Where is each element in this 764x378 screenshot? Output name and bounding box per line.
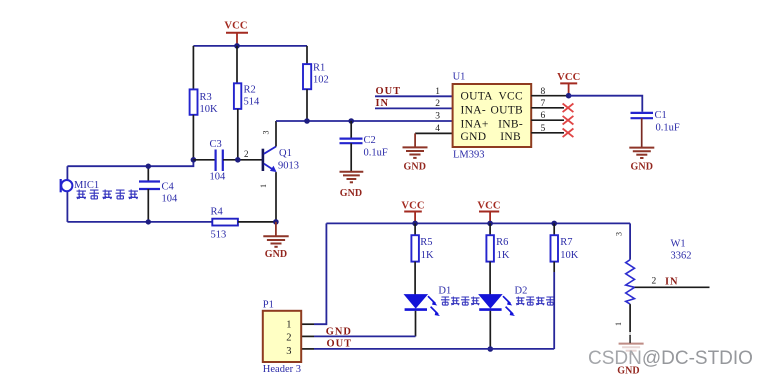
node R5 top — [412, 221, 418, 227]
svg-text:OUTA: OUTA — [461, 90, 494, 102]
potentiometer W1 3362 — [614, 223, 710, 336]
svg-text:9013: 9013 — [278, 161, 299, 172]
pin 7 wire — [531, 107, 564, 109]
svg-text:0.1uF: 0.1uF — [656, 123, 680, 134]
wire net OUT to U1 pin1 — [375, 95, 453, 97]
svg-text:C4: C4 — [162, 182, 175, 193]
svg-text:INB-: INB- — [498, 118, 523, 130]
connector P1 Header 3 — [263, 299, 301, 375]
resistor R3 — [190, 89, 218, 115]
svg-text:1: 1 — [614, 322, 623, 326]
svg-text:IN: IN — [376, 98, 390, 109]
no-connect X pin5 — [563, 129, 574, 138]
svg-text:GND: GND — [265, 249, 288, 260]
wire net OUT (P1 pin3 to D2/R7) — [314, 348, 554, 350]
resistor R6 — [486, 223, 509, 294]
no-connect X pin7 — [563, 104, 574, 113]
svg-text:6: 6 — [541, 111, 546, 121]
svg-text:7: 7 — [541, 99, 546, 109]
svg-text:R5: R5 — [420, 237, 432, 248]
svg-text:LM393: LM393 — [453, 150, 485, 161]
resistor R2 — [234, 83, 260, 109]
svg-text:2: 2 — [244, 149, 249, 159]
wire R4 to emitter node — [238, 221, 276, 223]
capacitor C1 — [631, 110, 680, 147]
wire pin8 to C1 — [569, 96, 643, 112]
svg-text:OUT: OUT — [327, 338, 353, 349]
svg-text:5: 5 — [541, 124, 546, 134]
power symbol VCC (top, net VCC) — [224, 21, 248, 46]
svg-text:GND: GND — [340, 188, 363, 199]
node emitter / R4 / GND — [273, 219, 279, 225]
svg-text:R1: R1 — [313, 63, 325, 74]
node D2/OUT junction — [488, 346, 494, 352]
svg-text:VCC: VCC — [557, 72, 580, 83]
svg-text:GND: GND — [404, 161, 427, 172]
svg-text:INA-: INA- — [461, 104, 486, 116]
svg-text:C2: C2 — [364, 135, 376, 146]
svg-text:10K: 10K — [200, 104, 219, 115]
svg-text:0.1uF: 0.1uF — [364, 148, 388, 159]
microphone MIC1 — [61, 166, 99, 222]
svg-text:OUTB: OUTB — [490, 104, 523, 116]
wire W1 pin1 stem (over blob) — [629, 335, 631, 343]
svg-text:VCC: VCC — [224, 21, 247, 32]
svg-text:2: 2 — [435, 99, 440, 109]
wire R3 bottom pin — [192, 115, 194, 160]
node R2 bottom junction — [235, 157, 241, 163]
power symbol VCC (U1 pin8) — [557, 72, 580, 96]
svg-text:GND: GND — [326, 326, 352, 337]
svg-text:3: 3 — [262, 131, 271, 135]
svg-text:3: 3 — [286, 346, 291, 357]
svg-text:4: 4 — [435, 124, 440, 134]
wire top rail VCC — [193, 45, 307, 47]
svg-text:R3: R3 — [200, 92, 212, 103]
svg-text:1: 1 — [286, 320, 291, 331]
svg-text:C3: C3 — [210, 139, 222, 150]
node VCC junction at R2 top — [234, 43, 240, 49]
node C4 top — [146, 164, 151, 169]
svg-text:1: 1 — [435, 87, 440, 97]
capacitor C4 — [139, 166, 178, 222]
pin 6 wire — [531, 119, 564, 121]
svg-text:C1: C1 — [655, 110, 667, 121]
ground (below C2) — [340, 172, 364, 199]
power symbol VCC (R5) — [401, 200, 424, 223]
svg-text:IN: IN — [665, 276, 679, 287]
svg-text:U1: U1 — [453, 72, 466, 83]
watermark background blob — [545, 332, 763, 371]
wire R1 bottom pin — [306, 89, 308, 121]
svg-text:Header 3: Header 3 — [263, 364, 301, 375]
svg-text:2: 2 — [286, 333, 291, 344]
wire D2 cathode down — [489, 311, 491, 349]
wire mic top rail — [67, 160, 193, 166]
resistor R7 — [551, 223, 579, 349]
svg-text:3: 3 — [615, 232, 624, 236]
ground (below W1) — [619, 344, 644, 354]
wire net IN to U1 pin2 — [375, 107, 453, 109]
svg-text:W1: W1 — [671, 239, 686, 250]
node R1 bottom / collector — [304, 118, 310, 124]
svg-text:VCC: VCC — [401, 200, 424, 211]
svg-text:GND: GND — [461, 131, 487, 143]
capacitor C3 — [210, 139, 227, 183]
label 电源指示 (fake cjk) — [441, 297, 480, 306]
pin 8 wire — [531, 95, 568, 97]
wire R3 top pin — [192, 46, 194, 90]
svg-text:R6: R6 — [496, 237, 508, 248]
ground (below C1) — [629, 148, 654, 173]
svg-text:R2: R2 — [244, 85, 256, 96]
svg-text:INB: INB — [500, 131, 521, 143]
svg-text:D2: D2 — [515, 285, 528, 296]
svg-text:GND: GND — [617, 365, 640, 376]
svg-text:8: 8 — [541, 87, 546, 97]
svg-text:OUT: OUT — [376, 86, 402, 97]
wire to C3 — [193, 159, 215, 161]
svg-text:513: 513 — [211, 230, 227, 241]
ground (below Q1) — [263, 222, 288, 260]
op-amp U1 LM393 — [453, 72, 532, 161]
node R6 top — [487, 221, 493, 227]
wire R1 top pin from rail — [306, 46, 308, 64]
ground (U1 pin4) — [403, 147, 428, 172]
svg-text:INA+: INA+ — [461, 118, 489, 130]
capacitor C2 — [340, 121, 388, 171]
transistor Q1 9013 — [259, 121, 299, 222]
wire C3 to base — [223, 159, 262, 161]
LED D1 — [405, 285, 452, 316]
no-connect X pin6 — [563, 116, 574, 125]
node R7 top — [551, 221, 557, 227]
svg-text:VCC: VCC — [498, 90, 523, 102]
svg-text:GND: GND — [631, 162, 654, 173]
svg-text:10K: 10K — [560, 250, 579, 261]
svg-text:104: 104 — [162, 194, 179, 205]
pin 5 wire — [531, 132, 564, 134]
svg-text:2: 2 — [652, 276, 657, 286]
svg-text:Q1: Q1 — [279, 148, 292, 159]
wire mic bottom rail — [67, 221, 212, 223]
wire P1 pin1 riser — [314, 223, 326, 324]
svg-text:104: 104 — [210, 172, 227, 183]
label 开关指示 (fake cjk) — [516, 297, 555, 306]
svg-text:1K: 1K — [421, 250, 434, 261]
svg-text:R7: R7 — [560, 237, 572, 248]
node pin8/VCC — [566, 93, 572, 99]
svg-text:VCC: VCC — [477, 200, 500, 211]
svg-text:1: 1 — [259, 184, 268, 188]
wire bottom VCC rail — [326, 222, 630, 224]
wire collector net to U1 pin3 — [276, 120, 453, 122]
wire D1 cathode down — [415, 311, 417, 337]
LED D2 — [479, 285, 527, 316]
wire U1 pin4 to ground — [415, 132, 453, 134]
node C4 bottom — [146, 219, 151, 224]
svg-text:D1: D1 — [438, 285, 451, 296]
node R3 bottom junction — [191, 157, 197, 163]
wire R2 top pin — [236, 46, 238, 83]
svg-text:3: 3 — [435, 111, 440, 121]
svg-text:1K: 1K — [497, 250, 510, 261]
resistor R1 — [303, 63, 329, 90]
svg-text:102: 102 — [313, 75, 329, 86]
resistor R4 — [211, 207, 238, 241]
power symbol VCC (R6) — [477, 200, 500, 223]
svg-text:CSDN@DC-STDIO: CSDN@DC-STDIO — [588, 348, 753, 369]
wire R2 bottom pin — [237, 109, 239, 160]
svg-text:3362: 3362 — [671, 250, 692, 261]
label 麦克风咪头 (fake cjk) — [77, 190, 138, 200]
svg-text:P1: P1 — [263, 299, 274, 310]
svg-text:MIC1: MIC1 — [74, 180, 99, 191]
svg-text:514: 514 — [244, 97, 261, 108]
svg-text:R4: R4 — [211, 207, 224, 218]
node C2 top — [348, 118, 354, 124]
resistor R5 — [411, 223, 434, 294]
